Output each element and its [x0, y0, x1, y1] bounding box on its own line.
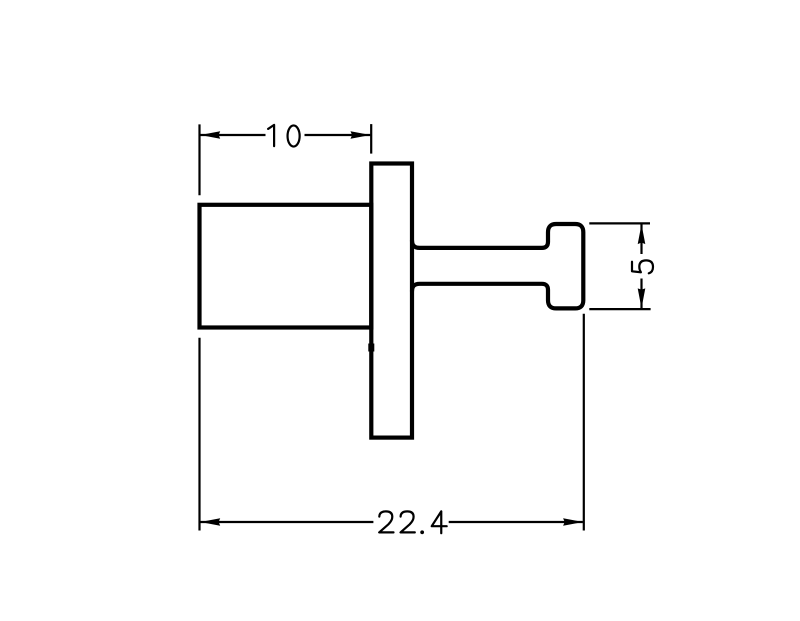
dimension line 10 left segment [201, 134, 266, 136]
extension line left of dim 10 [198, 124, 200, 195]
extension line left of dim 22.4 [198, 338, 200, 531]
stem and cap outline [412, 224, 583, 308]
dimension text 22.4 : digit 4 [432, 511, 447, 533]
arrowhead dim 5 top [638, 224, 646, 244]
dimension text 10 : digit 1 [268, 125, 274, 146]
extension line right of dim 10 [370, 124, 372, 154]
dimension text 5 (rotated) [632, 260, 653, 273]
dimension text 22.4 : decimal point [420, 530, 424, 534]
dimension text 22.4 : digit 2 (second) [401, 511, 415, 532]
dimension line 10 right segment [305, 134, 371, 136]
arrowhead dim 22.4 left [200, 518, 220, 526]
arrowhead dim 10 left [200, 131, 220, 139]
flange plate outline [371, 164, 412, 438]
dimension line 22.4 left segment [201, 521, 374, 523]
dimension text 10 : digit 0 [288, 125, 300, 146]
extension line top of dim 5 [589, 222, 650, 224]
arrowhead dim 22.4 right [563, 518, 583, 526]
extension line right of dim 22.4 [583, 314, 585, 531]
extension line bottom of dim 5 [589, 308, 650, 310]
arrowhead dim 5 bottom [638, 288, 646, 308]
dimension line 5 bottom segment [640, 279, 642, 309]
body block outline [200, 205, 372, 328]
dimension text 22.4 : digit 2 (first) [379, 511, 393, 532]
vertex tick on plate left edge [368, 344, 374, 352]
arrowhead dim 10 right [351, 131, 371, 139]
dimension line 22.4 right segment [449, 521, 583, 523]
dimension line 5 top segment [640, 224, 642, 254]
